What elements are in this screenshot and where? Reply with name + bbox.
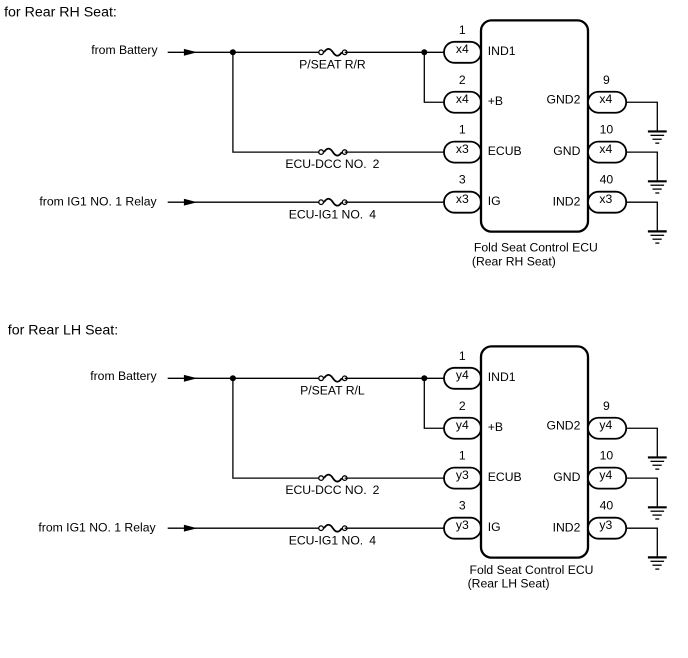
pin number 1 (ECUB) — [459, 449, 466, 463]
wire: IND2 pin to ground — [626, 202, 657, 231]
connector pin y4 (+B) — [444, 418, 481, 439]
fuse value label P/SEAT R/L — [300, 383, 365, 397]
pin number 9 (GND2) — [603, 73, 610, 87]
wire: branch down to +B pin — [424, 378, 445, 428]
ground — [648, 457, 667, 469]
pin number 10 (GND) — [600, 449, 614, 463]
svg-text:ECU-DCC NO. 2: ECU-DCC NO. 2 — [285, 483, 379, 497]
node: +B branch junction — [421, 49, 427, 55]
svg-text:1: 1 — [459, 123, 466, 137]
net label: from IG1 NO. 1 Relay — [39, 194, 157, 208]
svg-text:from Battery: from Battery — [90, 369, 157, 383]
svg-text:y4: y4 — [456, 418, 469, 432]
svg-text:x3: x3 — [456, 192, 469, 206]
pin number 2 (+B) — [459, 73, 466, 87]
ECU block: Fold Seat Control ECU (Rear LH Seat) — [481, 346, 588, 557]
pin name GND2 — [547, 418, 581, 432]
node: battery branch junction — [230, 49, 236, 55]
svg-text:for Rear RH Seat:: for Rear RH Seat: — [4, 5, 117, 21]
svg-text:P/SEAT R/L: P/SEAT R/L — [300, 383, 365, 397]
pin name IG — [488, 520, 501, 534]
svg-text:40: 40 — [600, 173, 614, 187]
wire: branch down to +B pin — [424, 52, 445, 102]
wire: IND2 pin to ground — [626, 528, 657, 557]
wire: branch down to ECU-DCC fuse — [233, 378, 321, 478]
svg-text:IND1: IND1 — [488, 370, 516, 384]
wire: fuse to IG pin — [345, 527, 445, 529]
arrow: IG1 feed direction — [184, 199, 197, 206]
svg-text:GND: GND — [553, 144, 580, 158]
net label: from Battery — [91, 43, 158, 57]
pin number 1 (IND1) — [459, 23, 466, 37]
pin number 40 (IND2) — [600, 499, 614, 513]
ground — [648, 231, 667, 243]
arrow: IG1 feed direction — [184, 525, 197, 532]
connector pin x4 (IND1) — [444, 42, 481, 63]
svg-text:3: 3 — [459, 173, 466, 187]
fuse P/SEAT R/L — [319, 375, 347, 382]
svg-text:y3: y3 — [456, 468, 469, 482]
pin number 3 (IG) — [459, 173, 466, 187]
svg-text:y4: y4 — [456, 368, 469, 382]
svg-text:(Rear LH Seat): (Rear LH Seat) — [468, 576, 550, 590]
fuse ECU-IG1 NO. 4 — [319, 199, 347, 206]
pin number 3 (IG) — [459, 499, 466, 513]
svg-text:9: 9 — [603, 73, 610, 87]
svg-text:for Rear LH Seat:: for Rear LH Seat: — [8, 322, 118, 338]
pin name IND2 — [553, 521, 581, 535]
pin name GND — [553, 144, 580, 158]
connector pin y4 (GND) — [588, 468, 626, 489]
pin number 1 (ECUB) — [459, 123, 466, 137]
svg-text:P/SEAT R/R: P/SEAT R/R — [299, 57, 366, 71]
wire: GND pin to ground — [626, 152, 657, 181]
ground — [648, 181, 667, 193]
pin number 10 (GND) — [600, 123, 614, 137]
fuse ECU-DCC NO. 2 — [319, 149, 347, 156]
svg-text:y4: y4 — [599, 418, 612, 432]
svg-text:+B: +B — [488, 94, 503, 108]
svg-text:2: 2 — [459, 73, 466, 87]
pin name +B — [488, 94, 503, 108]
ground — [648, 507, 667, 519]
wire: fuse to IG pin — [345, 201, 445, 203]
svg-text:x3: x3 — [599, 192, 612, 206]
pin name +B — [488, 420, 503, 434]
svg-text:(Rear RH Seat): (Rear RH Seat) — [472, 254, 556, 268]
connector pin y3 (IG) — [444, 518, 481, 539]
pin name IG — [488, 194, 501, 208]
svg-text:IND2: IND2 — [553, 521, 581, 535]
svg-text:1: 1 — [459, 349, 466, 363]
pin number 40 (IND2) — [600, 173, 614, 187]
svg-text:IND1: IND1 — [488, 44, 516, 58]
pin number 1 (IND1) — [459, 349, 466, 363]
arrow: battery feed direction — [184, 49, 197, 56]
fuse ECU-DCC NO. 2 — [319, 475, 347, 482]
ECU block: Fold Seat Control ECU (Rear RH Seat) — [481, 20, 588, 231]
svg-text:40: 40 — [600, 499, 614, 513]
connector pin x4 (GND) — [588, 142, 626, 163]
fuse P/SEAT R/R — [319, 49, 347, 56]
pin name IND2 — [553, 195, 581, 209]
svg-text:3: 3 — [459, 499, 466, 513]
connector pin x3 (ECUB) — [444, 142, 481, 163]
section title: for Rear LH Seat — [8, 322, 118, 338]
svg-text:x4: x4 — [456, 42, 469, 56]
fuse ECU-IG1 NO. 4 — [319, 525, 347, 532]
svg-text:ECUB: ECUB — [488, 144, 522, 158]
net label: from IG1 NO. 1 Relay — [38, 520, 156, 534]
svg-text:Fold Seat Control ECU: Fold Seat Control ECU — [474, 241, 598, 255]
svg-text:x3: x3 — [456, 142, 469, 156]
fuse value label P/SEAT R/R — [299, 57, 366, 71]
svg-text:ECU-DCC NO. 2: ECU-DCC NO. 2 — [285, 157, 379, 171]
svg-text:ECU-IG1 NO. 4: ECU-IG1 NO. 4 — [289, 533, 377, 547]
svg-text:y4: y4 — [599, 468, 612, 482]
svg-text:from IG1 NO. 1 Relay: from IG1 NO. 1 Relay — [38, 520, 156, 534]
fuse value label ECU-DCC NO. 2 — [285, 483, 379, 497]
pin name ECUB — [488, 144, 522, 158]
svg-text:9: 9 — [603, 399, 610, 413]
connector pin y4 (GND2) — [588, 418, 626, 439]
svg-text:10: 10 — [600, 123, 614, 137]
svg-text:x4: x4 — [599, 92, 612, 106]
wire: fuse to IND1 pin — [345, 51, 445, 53]
wire: GND2 pin to ground — [626, 102, 657, 131]
connector pin x3 (IG) — [444, 192, 481, 213]
svg-text:x4: x4 — [599, 142, 612, 156]
connector pin y3 (ECUB) — [444, 468, 481, 489]
node: +B branch junction — [421, 375, 427, 381]
pin number 2 (+B) — [459, 399, 466, 413]
svg-text:y3: y3 — [456, 518, 469, 532]
wire: branch down to ECU-DCC fuse — [233, 52, 321, 152]
svg-text:ECU-IG1 NO. 4: ECU-IG1 NO. 4 — [289, 207, 377, 221]
section title: for Rear RH Seat — [4, 5, 117, 21]
ECU caption: Fold Seat Control ECU (Rear LH Seat) — [468, 563, 594, 591]
wire: IG1 relay feed to fuse — [168, 201, 321, 203]
svg-text:10: 10 — [600, 449, 614, 463]
wire: battery feed to fuse — [168, 377, 321, 379]
wire: IG1 relay feed to fuse — [168, 527, 321, 529]
net label: from Battery — [90, 369, 157, 383]
fuse value label ECU-DCC NO. 2 — [285, 157, 379, 171]
wire: fuse to ECUB pin — [345, 151, 445, 153]
svg-text:IG: IG — [488, 520, 501, 534]
svg-text:GND2: GND2 — [547, 92, 581, 106]
svg-text:+B: +B — [488, 420, 503, 434]
wire: battery feed to fuse — [168, 51, 321, 53]
ground — [648, 557, 667, 569]
svg-text:IND2: IND2 — [553, 195, 581, 209]
connector pin x4 (GND2) — [588, 92, 626, 113]
pin name GND — [553, 470, 580, 484]
pin name IND1 — [488, 44, 516, 58]
svg-text:ECUB: ECUB — [488, 470, 522, 484]
node: battery branch junction — [230, 375, 236, 381]
pin number 9 (GND2) — [603, 399, 610, 413]
wire: fuse to ECUB pin — [345, 477, 445, 479]
pin name ECUB — [488, 470, 522, 484]
svg-text:1: 1 — [459, 23, 466, 37]
wire: GND2 pin to ground — [626, 428, 657, 457]
connector pin x3 (IND2) — [588, 192, 626, 213]
svg-text:from Battery: from Battery — [91, 43, 158, 57]
connector pin y3 (IND2) — [588, 518, 626, 539]
ECU caption: Fold Seat Control ECU (Rear RH Seat) — [472, 241, 598, 269]
svg-text:from IG1 NO. 1 Relay: from IG1 NO. 1 Relay — [39, 194, 157, 208]
svg-text:x4: x4 — [456, 92, 469, 106]
fuse value label ECU-IG1 NO. 4 — [289, 207, 377, 221]
arrow: battery feed direction — [184, 375, 197, 382]
wire: GND pin to ground — [626, 478, 657, 507]
connector pin y4 (IND1) — [444, 368, 481, 389]
connector pin x4 (+B) — [444, 92, 481, 113]
pin name GND2 — [547, 92, 581, 106]
pin name IND1 — [488, 370, 516, 384]
fuse value label ECU-IG1 NO. 4 — [289, 533, 377, 547]
ground — [648, 131, 667, 143]
svg-text:GND2: GND2 — [547, 418, 581, 432]
svg-text:1: 1 — [459, 449, 466, 463]
wire: fuse to IND1 pin — [345, 377, 445, 379]
svg-text:2: 2 — [459, 399, 466, 413]
svg-text:y3: y3 — [599, 518, 612, 532]
svg-text:Fold Seat Control ECU: Fold Seat Control ECU — [470, 563, 594, 577]
svg-text:GND: GND — [553, 470, 580, 484]
svg-text:IG: IG — [488, 194, 501, 208]
